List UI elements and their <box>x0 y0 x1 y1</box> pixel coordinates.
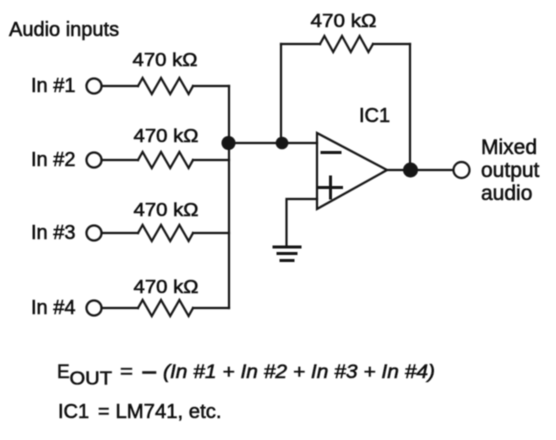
formula: EOUT = - (In #1 + In #2 + In #3 + In #4) <box>57 362 435 389</box>
svg-text:In #2: In #2 <box>31 149 75 171</box>
wire: R2 to bus <box>193 159 229 161</box>
resistor R1 <box>138 78 193 94</box>
input terminal In #3 <box>87 226 102 241</box>
input terminal In #1 <box>87 79 102 94</box>
resistor R3 <box>138 225 193 241</box>
junction node: feedback tap at inverting input <box>276 137 289 150</box>
svg-text:470 kΩ: 470 kΩ <box>134 277 199 297</box>
svg-text:IC1: IC1 <box>58 401 89 423</box>
svg-text:470 kΩ: 470 kΩ <box>311 11 377 31</box>
wire: In #4 terminal to R4 <box>102 307 138 309</box>
svg-text:LM741, etc.: LM741, etc. <box>116 401 222 423</box>
svg-text:In #1: In #1 <box>31 75 75 97</box>
wire: R4 to bus <box>193 307 229 309</box>
svg-text:In #4: In #4 <box>31 297 75 319</box>
svg-text:Mixed: Mixed <box>481 136 537 159</box>
input terminal In #4 <box>87 301 102 316</box>
wire: feedback right vertical to output <box>409 44 411 170</box>
wire: In #2 terminal to R2 <box>102 159 138 161</box>
svg-text:470 kΩ: 470 kΩ <box>134 126 199 146</box>
wire: feedback top right <box>373 43 410 45</box>
op-amp IC1 <box>317 133 387 209</box>
wire: op-amp output <box>387 169 453 171</box>
svg-text:=: = <box>98 401 110 423</box>
wire: In #3 terminal to R3 <box>102 232 138 234</box>
wire: bus to op-amp inverting input <box>229 142 317 144</box>
resistor R2 <box>138 152 193 168</box>
svg-text:OUT: OUT <box>70 369 113 389</box>
wire: feedback top left <box>281 43 320 45</box>
svg-text:=: = <box>120 362 133 383</box>
junction node: output / feedback <box>403 163 418 178</box>
svg-text:Audio inputs: Audio inputs <box>9 19 119 41</box>
wire: feedback left vertical <box>280 44 282 143</box>
svg-text:(In #1 + In #2 + In #3 + In #4: (In #1 + In #2 + In #3 + In #4) <box>163 362 435 383</box>
input terminal In #2 <box>87 153 102 168</box>
wire: R1 to bus <box>193 85 229 87</box>
note: IC1 = LM741, etc. <box>58 401 222 423</box>
svg-text:470 kΩ: 470 kΩ <box>133 50 198 70</box>
svg-text:audio: audio <box>481 182 532 205</box>
svg-text:E: E <box>57 362 70 383</box>
svg-text:output: output <box>481 159 540 182</box>
junction node: bus / inverting input <box>222 136 236 150</box>
resistor R4 <box>138 300 193 316</box>
op-amp inverting pin symbol "-" <box>322 151 340 154</box>
svg-text:IC1: IC1 <box>359 105 390 127</box>
ground <box>274 247 300 261</box>
wire: R3 to bus <box>193 232 229 234</box>
svg-text:In #3: In #3 <box>31 222 75 244</box>
wire: summing bus vertical <box>228 86 230 308</box>
wire: In #1 terminal to R1 <box>102 85 138 87</box>
label "Mixed output audio" <box>481 136 540 205</box>
output terminal <box>454 162 470 178</box>
op-amp non-inverting pin symbol "+" <box>320 177 342 198</box>
feedback resistor R5 <box>320 36 373 52</box>
svg-text:470 kΩ: 470 kΩ <box>134 200 199 220</box>
wire: non-inverting input to ground <box>287 199 318 246</box>
